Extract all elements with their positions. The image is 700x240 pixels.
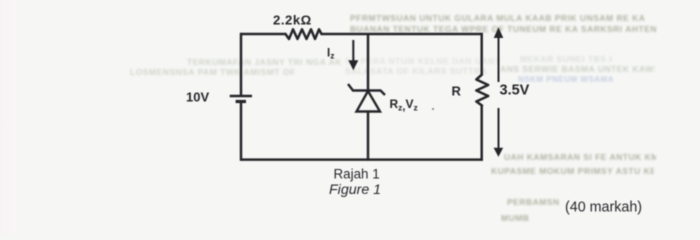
wire bottom [240, 158, 483, 161]
svg-text:2.2kΩ: 2.2kΩ [273, 13, 312, 28]
voltage arrow 3.5V bottom head [494, 148, 504, 157]
battery V1 long plate [230, 95, 252, 98]
zener diode D1 cathode bar [348, 84, 385, 95]
svg-text:Iz: Iz [327, 48, 334, 61]
voltage arrow 3.5V bottom shaft [498, 108, 500, 149]
wire left upper [240, 33, 243, 96]
svg-text:R: R [452, 84, 462, 99]
svg-text:Rajah 1: Rajah 1 [334, 167, 380, 182]
voltage arrow 3.5V top shaft [498, 35, 500, 82]
dot after Rz,Vz [432, 108, 434, 110]
wire top-right segment [321, 33, 483, 36]
paper edge tint [0, 0, 26, 234]
svg-text:Figure 1: Figure 1 [329, 182, 381, 198]
zener branch wire upper [367, 34, 370, 91]
battery V1 short plate [236, 100, 246, 103]
wire top-left segment [240, 33, 286, 36]
wire right upper [480, 33, 483, 75]
voltage arrow 3.5V top head [494, 27, 504, 38]
wire right lower [480, 105, 483, 161]
bleed-through text (back of page) [350, 13, 660, 23]
current arrow Iz shaft [352, 40, 354, 62]
svg-text:(40 markah): (40 markah) [565, 200, 642, 216]
svg-text:10V: 10V [186, 90, 209, 105]
svg-text:3.5V: 3.5V [500, 83, 530, 99]
resistor R zigzag [476, 75, 488, 106]
zener diode D1 triangle [357, 91, 381, 112]
zener branch wire lower [367, 112, 370, 161]
svg-text:Rz,Vz: Rz,Vz [390, 97, 418, 113]
wire left lower [240, 102, 243, 161]
resistor R1 2.2kΩ zigzag [286, 29, 322, 39]
current arrow Iz head [348, 60, 358, 70]
